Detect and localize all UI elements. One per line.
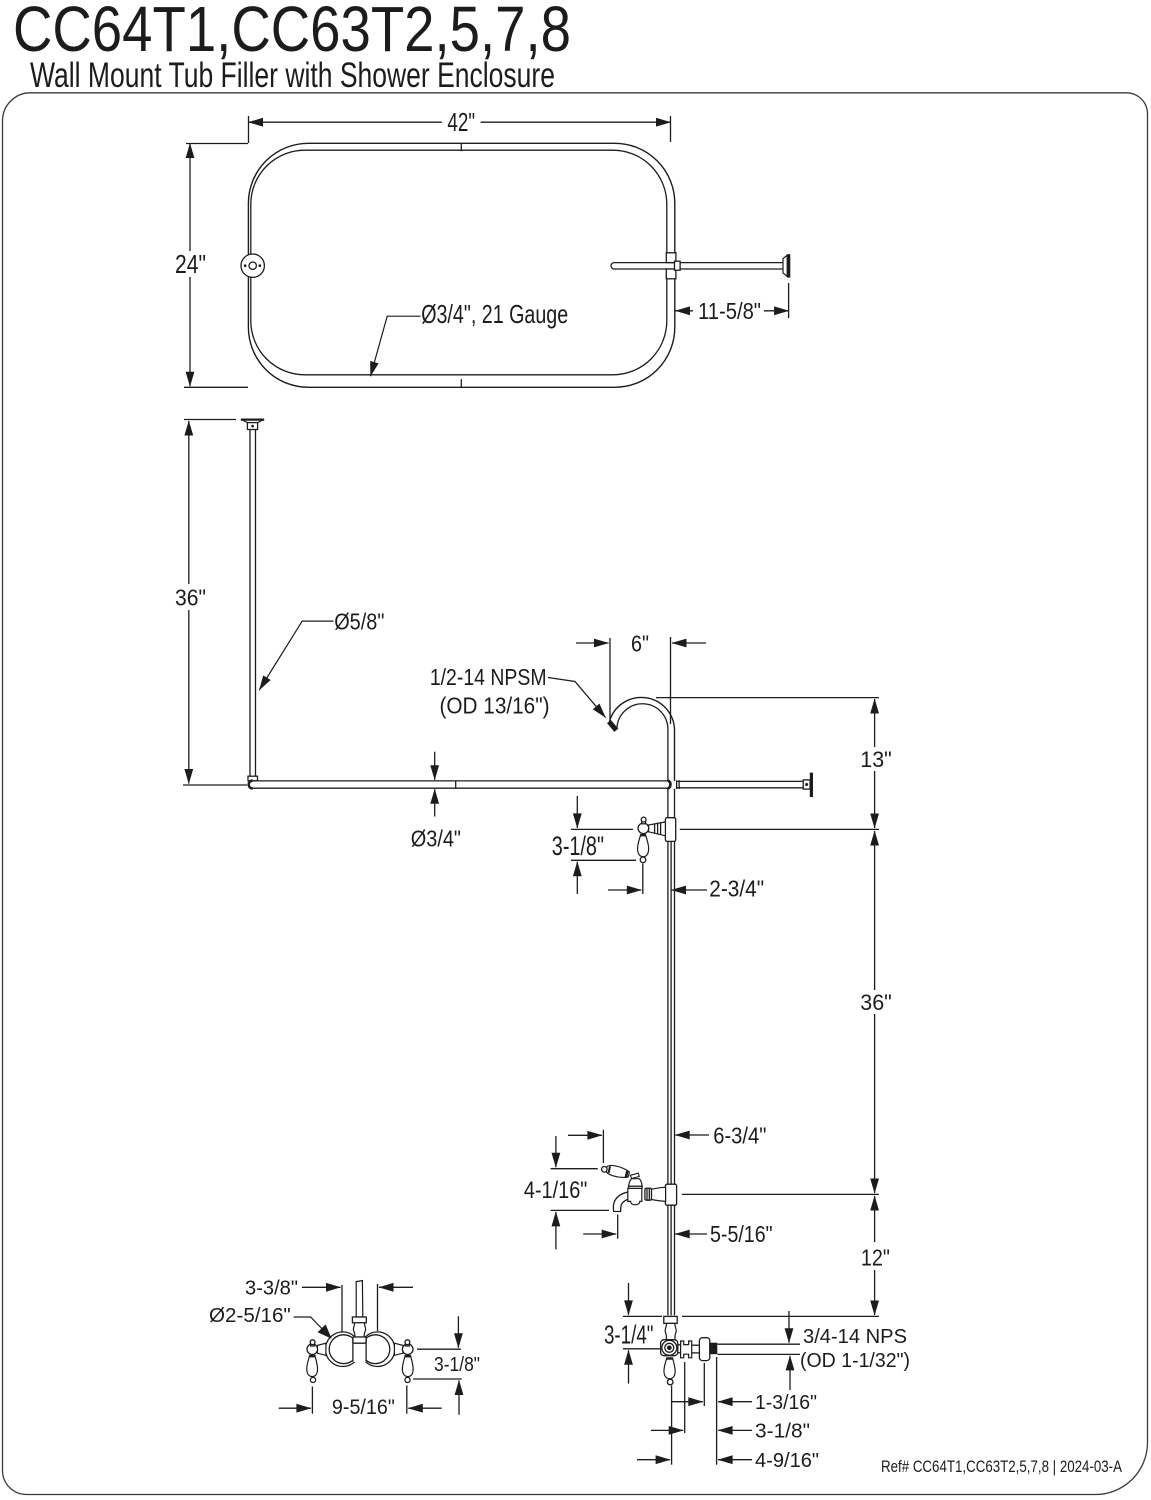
label leader line for tube spec (371, 316, 421, 376)
svg-text:5-5/16": 5-5/16" (710, 1221, 773, 1247)
leader to faucet body (294, 1317, 331, 1338)
nipple ext line top (718, 1343, 801, 1345)
union pipe segment (678, 1344, 681, 1346)
faucet body left lobe outer (326, 1332, 361, 1367)
svg-text:Wall Mount Tub Filler with Sho: Wall Mount Tub Filler with Shower Enclos… (30, 56, 555, 95)
dim 3-1/8 ext line top (571, 828, 633, 830)
faucet center column edges (352, 1337, 354, 1362)
svg-text:4-1/16": 4-1/16" (524, 1177, 588, 1204)
pipe end extension line right (682, 1315, 879, 1317)
dim 3-3/8 ext line right (377, 1284, 379, 1331)
union spool (681, 1341, 692, 1358)
dim 3-1/8 arrow left (718, 1429, 752, 1431)
dimension 6 extension line left (609, 638, 611, 722)
wall flange plate (side view) (810, 773, 813, 797)
ceiling flange plate (241, 419, 263, 422)
dimension 42 inch extension line left (248, 116, 250, 143)
tub valve handle (lever) (605, 1164, 630, 1180)
ext line nipple v (716, 1357, 718, 1465)
riser pipe above bar left (667, 780, 669, 782)
nipple ext line bottom (718, 1353, 801, 1355)
wall support rod (top view) (611, 263, 783, 269)
svg-text:Ø3/4": Ø3/4" (411, 826, 461, 852)
svg-text:3-1/8": 3-1/8" (755, 1421, 810, 1443)
stop valve stem mid circle (665, 1343, 674, 1352)
handle centerline extension (642, 864, 644, 895)
dimension 12 line lower (874, 1270, 876, 1315)
dimension 36 line lower part (188, 610, 190, 784)
ceiling rod collar (248, 776, 258, 781)
svg-text:36": 36" (175, 585, 206, 611)
dimension 24 inch extension line top (186, 143, 248, 145)
svg-text:12": 12" (861, 1245, 890, 1271)
dimension 24 inch extension line bottom (184, 386, 248, 388)
faucet right knob (406, 1344, 410, 1346)
shower arm gooseneck inner curve (617, 704, 668, 781)
faucet dim ext line 1 (417, 1348, 461, 1350)
curtain rod 42in (side view) capsule (249, 781, 670, 788)
dim 3-1/8 arrow top (576, 796, 578, 828)
tub valve body (628, 1188, 642, 1204)
shower arm gooseneck outer curve (610, 697, 675, 780)
wall flange block (side view) (803, 780, 810, 789)
wall plate screw hole right (259, 264, 262, 267)
dimension 11-5/8 arrow left (676, 310, 694, 312)
wall support rod (side view) top edge (676, 780, 803, 782)
shower valve bonnet cone (649, 822, 666, 836)
faucet right handle band (405, 1355, 411, 1357)
dimension 13 line upper (874, 699, 876, 712)
ceiling flange screw dot (251, 425, 254, 428)
stop valve stem outer circle (662, 1340, 677, 1355)
svg-text:4-9/16": 4-9/16" (755, 1450, 819, 1472)
ceiling flange block (247, 423, 257, 430)
rod diameter arrow below (434, 789, 436, 816)
dim 4-1/16 ext line 2 (551, 1209, 609, 1211)
dimension 36 right line upper (874, 831, 876, 843)
dimension 36 line upper part (188, 421, 190, 584)
dimension 36 right line lower (874, 1014, 876, 1193)
faucet left handle (307, 1356, 318, 1377)
extension line valve center (680, 828, 879, 830)
nipple arrow up (789, 1356, 791, 1390)
wall plate center hole (249, 262, 256, 269)
faucet body left lobe inner (329, 1335, 353, 1364)
dim 4-1/16 ext line 1 (551, 1168, 598, 1170)
stop valve stem inner circle (667, 1346, 672, 1351)
faucet spindle (353, 1323, 365, 1337)
svg-text:3/4-14 NPS: 3/4-14 NPS (803, 1326, 907, 1348)
dimension 36 right line (874, 843, 876, 990)
dimension 6 extension line right (670, 637, 672, 724)
rod clamp above (666, 253, 676, 263)
dim 5-5/16 arrow right (675, 1233, 686, 1235)
tub spout union ribs (646, 1189, 648, 1201)
faucet body right lobe inner (366, 1335, 390, 1364)
dimension 11-5/8 extension line (788, 283, 790, 318)
dim 9-5/16 arrow right (408, 1407, 441, 1409)
faucet left handle ball (310, 1377, 315, 1382)
tub valve bonnet (629, 1179, 643, 1189)
pipe end extension line left (623, 1315, 662, 1317)
faucet right handle ball (405, 1377, 410, 1382)
svg-text:3-1/4": 3-1/4" (604, 1322, 654, 1350)
svg-text:6-3/4": 6-3/4" (713, 1123, 766, 1149)
svg-text:3-3/8": 3-3/8" (245, 1278, 298, 1300)
dimension 42 inch extension line right (670, 116, 672, 142)
leader to shower arm outlet (548, 678, 606, 718)
faucet left knob (311, 1344, 315, 1346)
dim 9-5/16 arrow left (279, 1407, 311, 1409)
stop valve handle band (667, 1357, 673, 1359)
shower valve handle end ball (640, 857, 646, 863)
dim 9-5/16 ext line right (406, 1385, 408, 1413)
dim 4-1/16 v-arrow top (555, 1136, 557, 1167)
supply nut (664, 1316, 677, 1323)
stop valve handle ball (667, 1379, 673, 1385)
dim 6-3/4 arrow (675, 1134, 709, 1136)
label leader line for ceiling rod diameter (259, 621, 333, 690)
riser pipe below bar to tee (667, 789, 669, 818)
rod joint tick top center (460, 143, 462, 151)
curtain rod left end cap bold (249, 781, 253, 789)
ceiling support rod left edge (249, 430, 251, 777)
dimension 6 arrow right (672, 642, 706, 644)
handle tip extension line (602, 1130, 604, 1163)
spout outlet extension line (617, 1215, 619, 1239)
rod clamp below (666, 269, 676, 279)
faucet left handle band (309, 1355, 315, 1357)
dim 2-3/4 arrow right (672, 889, 708, 891)
dimension 11-5/8 arrow right (764, 310, 789, 312)
shower enclosure rod (top view) inner outline (251, 150, 667, 375)
svg-text:1/2-14 NPSM: 1/2-14 NPSM (430, 664, 547, 690)
svg-text:6": 6" (631, 631, 649, 657)
dimension 42 inch line left part (249, 121, 442, 123)
shower arm outlet end face (609, 722, 616, 731)
stop valve body (661, 1340, 678, 1356)
svg-text:Ref# CC64T1,CC63T2,5,7,8 | 202: Ref# CC64T1,CC63T2,5,7,8 | 2024-03-A (881, 1457, 1123, 1476)
svg-text:3-1/8": 3-1/8" (434, 1354, 480, 1376)
dimension 24 inch line upper part (189, 144, 191, 252)
wall flange dot (805, 783, 808, 786)
dim 4-9/16 arrow left (718, 1459, 752, 1461)
wall flange stem (top view) (783, 255, 787, 276)
escutcheon pipe segment (692, 1344, 700, 1346)
rod diameter arrow above (434, 752, 436, 780)
svg-text:1-3/16": 1-3/16" (755, 1392, 817, 1414)
faucet dim arrow bottom (458, 1381, 460, 1415)
svg-text:Ø2-5/16": Ø2-5/16" (209, 1305, 291, 1327)
tub spout outlet (613, 1192, 630, 1212)
dim 3-3/8 arrow right (379, 1286, 413, 1288)
svg-text:24": 24" (175, 251, 206, 279)
dim 2-3/4 arrow left (608, 889, 641, 891)
svg-text:11-5/8": 11-5/8" (698, 298, 761, 324)
svg-text:3-1/8": 3-1/8" (552, 831, 604, 861)
extension line gooseneck top (656, 697, 879, 699)
shower valve handle band (640, 834, 646, 836)
tub spout horn to tee (651, 1187, 665, 1201)
faucet dim ext line 2 (413, 1378, 462, 1380)
faucet right ball (402, 1344, 413, 1355)
dim 5-5/16 arrow left (583, 1233, 616, 1235)
escutcheon disc (699, 1338, 709, 1361)
dim 3-1/4 arrow top (628, 1283, 630, 1315)
dim 1-3/16 arrow right (672, 1401, 703, 1403)
curtain rod right end cap bold (668, 781, 671, 789)
tub spout tee (665, 1184, 676, 1205)
shower enclosure rod (top view) outer outline (248, 143, 674, 387)
svg-text:13": 13" (860, 747, 892, 772)
dim 1-3/16 arrow left (718, 1401, 752, 1403)
rod joint tick bottom center (460, 379, 462, 387)
riser pipe below spout tee (667, 1205, 669, 1315)
faucet left cone (317, 1343, 326, 1355)
dimension 36 extension line top (184, 419, 236, 421)
shower valve bonnet rings (654, 824, 656, 833)
dim 4-1/16 top h-arrow (568, 1134, 602, 1136)
svg-text:42": 42" (447, 109, 475, 137)
faucet supply pipe (356, 1281, 363, 1317)
supply spindle (665, 1323, 676, 1339)
dim 3-1/8 arrow right (651, 1429, 683, 1431)
svg-text:(OD 13/16"): (OD 13/16") (440, 692, 550, 718)
dim 3-3/8 arrow left (302, 1286, 341, 1288)
faucet supply nut (352, 1317, 366, 1323)
support rod collar ticks (676, 780, 678, 789)
dimension 12 line (874, 1208, 876, 1242)
curtain rod joint tick (455, 781, 457, 788)
tub valve bonnet collar (628, 1185, 643, 1187)
dimension 13 line (874, 712, 876, 747)
ext line union v (684, 1362, 686, 1433)
shower valve handle (638, 835, 649, 857)
stop valve handle (664, 1358, 675, 1379)
ceiling support rod right edge (255, 430, 257, 777)
faucet left ball (307, 1344, 318, 1355)
wall flange plate (top view) (787, 254, 790, 277)
faucet right cone (394, 1343, 403, 1355)
dim 3-1/4 arrow bottom (628, 1350, 630, 1383)
dim 9-5/16 ext line left (311, 1387, 313, 1414)
dim 4-1/16 v-arrow bottom (555, 1212, 557, 1249)
dimension 13 line lower (874, 771, 876, 828)
tub spout union nut (645, 1188, 652, 1200)
svg-text:36": 36" (860, 990, 892, 1015)
dim 5-5/16 tail (687, 1233, 707, 1235)
extension line tub spout center (682, 1193, 879, 1195)
faucet dim arrow top (457, 1316, 459, 1348)
dimension 42 inch line right part (481, 121, 671, 123)
tub valve handle tip ball (602, 1167, 608, 1173)
dimension 6 arrow left (576, 642, 609, 644)
dimension 24 inch line lower part (189, 277, 191, 386)
svg-text:(OD 1-1/32"): (OD 1-1/32") (800, 1350, 910, 1372)
wall support rod (side view) bottom edge (676, 787, 803, 789)
shower valve tee (665, 818, 675, 842)
dimension 12 line upper (874, 1196, 876, 1208)
dim 3-1/8 ext line bottom (571, 859, 636, 861)
faucet spindle collar (353, 1337, 366, 1343)
wall mount plate circle (241, 254, 264, 277)
shower valve ball joint (638, 823, 649, 834)
dim 3-3/8 ext line left (341, 1285, 343, 1333)
svg-text:2-3/4": 2-3/4" (709, 876, 764, 902)
ext line escutcheon v (703, 1363, 705, 1406)
faucet body right lobe outer (360, 1332, 395, 1367)
faucet body lobes underlay (326, 1332, 361, 1367)
dim 4-9/16 arrow right (637, 1459, 670, 1461)
svg-text:9-5/16": 9-5/16" (332, 1396, 395, 1419)
shower valve top knob (642, 821, 646, 824)
dim 3-1/8 arrow bottom (576, 862, 578, 894)
ext line handle center v (671, 1386, 673, 1465)
dimension 36 extension line bottom (183, 784, 247, 786)
tub valve stem (630, 1173, 639, 1178)
wall plate screw hole left (244, 264, 247, 267)
faucet right handle (402, 1356, 413, 1377)
threaded nipple (710, 1343, 717, 1354)
faucet body center column (353, 1337, 366, 1362)
svg-text:Ø5/8": Ø5/8" (334, 609, 384, 635)
rod coupling at oval tube (675, 261, 681, 270)
riser pipe tee to spout tee (667, 841, 669, 1184)
nipple arrow down (788, 1311, 790, 1343)
dim 3-1/4 ext line mid (623, 1348, 660, 1350)
svg-text:Ø3/4", 21 Gauge: Ø3/4", 21 Gauge (421, 299, 568, 329)
